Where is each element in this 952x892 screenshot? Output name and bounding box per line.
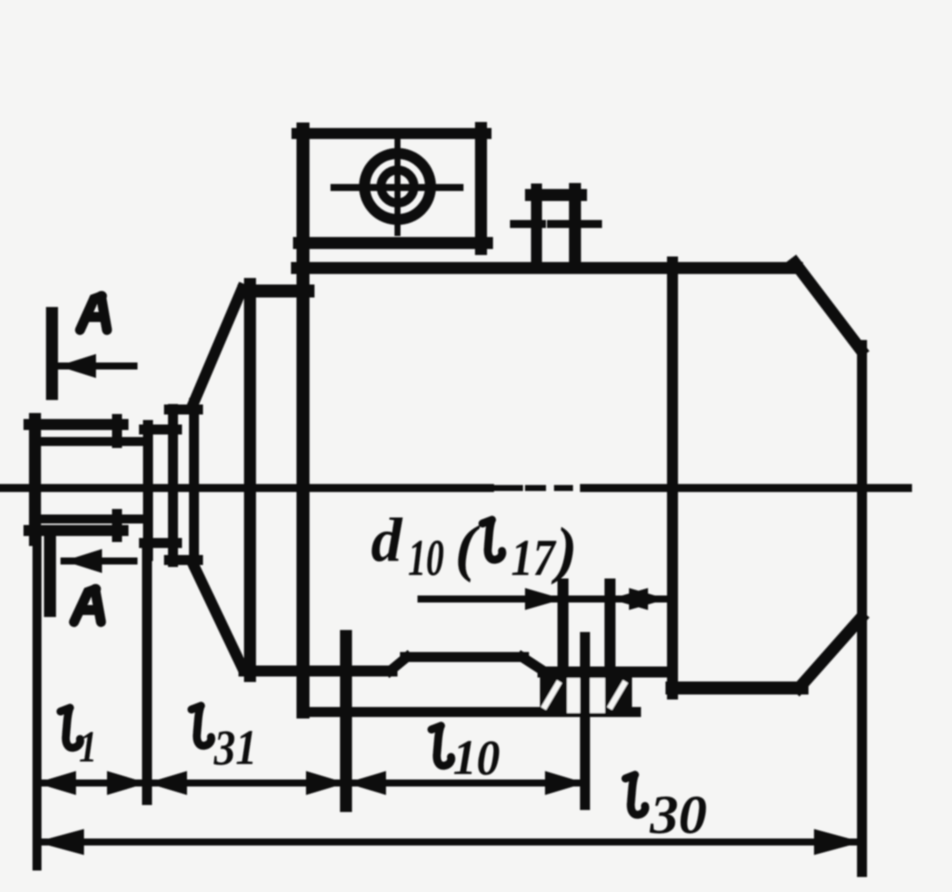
centerline (motor axis) [0,484,908,492]
terminal box top edge [297,128,486,139]
bearing cap face V3 [189,403,199,564]
section mark tick upper [46,313,58,394]
flange disk left edge [244,284,256,676]
keyway bottom line [38,515,148,524]
bearing ring top edge [144,425,177,435]
svg-text:17: 17 [511,530,557,587]
dimension line row 1 (l1, l31, l10) [36,780,585,787]
arrowhead l30 right [814,829,862,855]
svg-text:10: 10 [453,729,500,785]
flange disk bottom edge / body bottom left run [244,666,392,677]
body bottom recess diagonal right [522,657,545,672]
arrowhead l10 left [346,771,386,795]
svg-text:30: 30 [649,784,707,845]
bearing ring face V2 [168,409,178,562]
arrowhead l31 left [147,771,187,795]
bearing cone lower diagonal [194,566,243,669]
extension line body left foot (ext3) [340,636,352,806]
end cap right edge and l30 extension [857,345,867,872]
arrowhead l31 right [306,771,346,795]
foot pad hatch slash right [611,684,624,706]
bearing cap top edge [169,405,198,415]
extension line d10 right [605,584,616,666]
extension line shaft end (ext1) [33,540,42,866]
dimension line row 2 (l30) [36,839,862,846]
bearing cone upper diagonal [194,289,242,402]
terminal box right edge [475,128,487,249]
label l30 [626,775,646,815]
arrowhead l30 left [36,829,84,855]
arrowhead d10 right [610,588,648,610]
shaft bottom edge [29,525,123,536]
bearing ring bottom edge [144,538,177,548]
foot bottom line [303,707,636,717]
arrowhead d10 left [525,588,563,610]
keyway slot end (bottom) [112,514,122,537]
keyway top line [38,437,148,446]
extension line d10 left [558,584,569,666]
extension line foot hole center (l10 right) [580,637,590,805]
body bottom recess diagonal left [390,657,407,671]
arrowhead l17 at end shield [629,588,667,610]
end cap left edge / body right edge [667,262,678,694]
svg-text:10: 10 [408,530,444,587]
arrowhead l1 right [107,771,147,795]
shaft left end face [29,419,41,540]
body top line [297,262,797,274]
shaft top edge [29,419,123,430]
section letter A lower [74,589,101,622]
body / terminal-box left edge [297,129,310,712]
body bottom right run [543,667,672,678]
eye bolt vertical crosshair [395,139,401,233]
body bottom recess top [405,652,524,662]
bearing cap bottom edge [169,555,198,565]
label l10 [432,726,452,766]
end cap chamfer top [795,263,861,350]
d10 dimension line [421,596,667,603]
conduit stub right bar [569,189,581,268]
eye bolt outer ring [365,154,431,220]
conduit stub left bar [531,189,542,266]
keyway slot end (top) [112,419,122,443]
section mark tick lower [44,535,56,611]
label l1 [61,708,81,748]
section arrow upper [58,363,134,370]
shaft shoulder face V1 [143,425,153,556]
extension line shaft shoulder (ext2) [142,553,152,800]
end cap bottom edge [672,682,802,695]
label l31 [192,706,212,746]
eye bolt horizontal crosshair [334,184,460,191]
conduit stub top bar [531,189,581,201]
foot pad (hatched section) [540,667,632,713]
section letter A upper [80,296,107,330]
svg-text:31: 31 [213,719,257,775]
conduit stub tick [514,220,542,228]
end cap chamfer bottom [799,618,861,688]
section arrow lower [64,558,134,565]
arrowhead l1 left [36,771,76,795]
terminal box bottom plate [299,237,487,249]
eye bolt inner ring [381,170,414,203]
svg-text:1: 1 [79,722,97,771]
foot pad hatch slash left [545,684,558,706]
flange disk top edge [244,285,308,298]
svg-text:(: ( [455,512,481,583]
svg-text:d: d [371,507,403,575]
arrowhead l10 right [545,771,585,795]
